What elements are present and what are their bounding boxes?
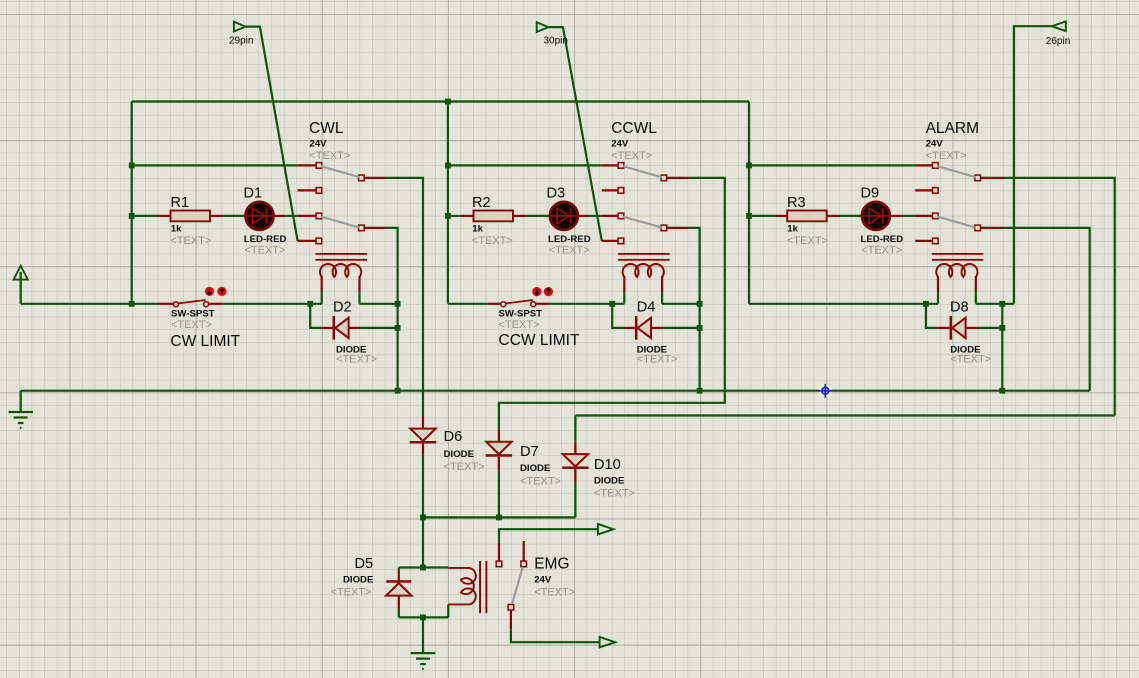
diode D4 right lead: [651, 327, 663, 329]
label CW LIMIT: [170, 333, 240, 350]
label TEXT: [950, 353, 991, 365]
label CCW LIMIT: [499, 332, 580, 349]
wire block2 left rail: [447, 102, 449, 304]
wire EMG common to output: [511, 630, 600, 643]
svg-text:<TEXT>: <TEXT>: [950, 353, 991, 365]
switch EMG pin1 lead: [498, 542, 500, 561]
relay contact stub: [602, 215, 618, 217]
svg-text:<TEXT>: <TEXT>: [926, 150, 967, 162]
relay contact stub: [981, 227, 1004, 229]
label D7: [520, 444, 539, 460]
label SW-SPST: [171, 308, 215, 319]
svg-text:SW-SPST: SW-SPST: [499, 308, 543, 319]
svg-text:LED-RED: LED-RED: [861, 234, 904, 245]
svg-text:<TEXT>: <TEXT>: [171, 319, 212, 331]
wire to relay4 top: [422, 517, 424, 567]
junction: [445, 163, 451, 169]
wire row3 block2 a: [448, 215, 461, 217]
wire relay4 bottom row: [399, 616, 449, 618]
label 1k: [787, 223, 798, 234]
relay contact stub: [298, 189, 316, 191]
pin pad: [661, 175, 667, 181]
junction: [697, 325, 703, 331]
label DIODE: [950, 345, 981, 356]
relay RL1 right lead: [358, 276, 360, 291]
pin pad: [618, 188, 624, 194]
junction: [129, 213, 135, 219]
svg-text:D2: D2: [333, 300, 352, 316]
label TEXT: [549, 245, 590, 257]
svg-text:D4: D4: [637, 300, 656, 316]
svg-text:D7: D7: [520, 444, 539, 460]
label LED-RED: [861, 234, 904, 245]
wire bottom block1 a: [21, 303, 159, 305]
label 24V: [611, 138, 629, 149]
label 26pin: [1046, 36, 1070, 47]
junction: [609, 301, 615, 307]
wire bottom block3 b: [976, 303, 1014, 305]
diode D2 left lead: [321, 327, 332, 329]
wire coil1 left foot: [321, 292, 323, 304]
label TEXT: [444, 461, 485, 473]
relay contact stub: [602, 240, 618, 242]
wire 29pin: [246, 27, 298, 241]
ground: [9, 411, 33, 429]
wire block3 left rail: [748, 102, 750, 304]
relay contact stub: [915, 240, 932, 242]
label LED-RED: [244, 234, 287, 245]
diode D10 top lead: [574, 442, 576, 454]
svg-text:<TEXT>: <TEXT>: [309, 150, 350, 162]
switch blade: [321, 166, 360, 177]
wire 24V top bus: [132, 100, 749, 102]
label D2: [333, 300, 352, 316]
pin pad: [661, 225, 667, 231]
svg-text:<TEXT>: <TEXT>: [637, 353, 678, 365]
diode D5 bottom lead: [398, 596, 400, 609]
input terminal: [14, 266, 28, 304]
relay contact stub: [915, 189, 932, 191]
switch SW2 right lead: [536, 303, 550, 305]
label TEXT: [926, 150, 967, 162]
svg-text:1k: 1k: [171, 223, 182, 234]
svg-text:R3: R3: [787, 195, 806, 211]
label DIODE: [444, 449, 475, 460]
label DIODE: [594, 476, 625, 487]
diode D6: [410, 429, 436, 444]
svg-text:R1: R1: [171, 195, 190, 211]
junction: [420, 565, 426, 571]
switch SW1 left lead: [159, 303, 174, 305]
wire D4 cathode link: [663, 327, 700, 329]
diode D8 left lead: [937, 327, 949, 329]
svg-text:LED-RED: LED-RED: [244, 234, 287, 245]
wire row2 block2: [448, 164, 602, 166]
ground: [411, 652, 435, 670]
wire D5 top stem: [398, 568, 400, 572]
pin pad: [975, 225, 981, 231]
wire row3 block3 b: [840, 215, 862, 217]
label R2: [472, 195, 491, 211]
pin pad: [975, 175, 981, 181]
pin pad: [316, 213, 322, 219]
wire relay3 right to bus A: [1001, 304, 1003, 391]
svg-text:1k: 1k: [787, 223, 798, 234]
LED D1 right lead: [274, 215, 286, 217]
svg-text:1k: 1k: [472, 223, 483, 234]
svg-text:30pin: 30pin: [544, 36, 568, 47]
label TEXT: [472, 235, 513, 247]
diode D7 bottom lead: [498, 457, 500, 471]
relay contact stub: [602, 164, 618, 166]
svg-text:<TEXT>: <TEXT>: [611, 150, 652, 162]
label LED-RED: [548, 234, 591, 245]
svg-text:D6: D6: [444, 429, 463, 445]
label TEXT: [170, 235, 211, 247]
svg-text:24V: 24V: [310, 138, 328, 149]
wire relay4 right foot: [447, 604, 449, 617]
switch SW-SPST CW LIMIT: [173, 300, 208, 307]
resistor R3: [787, 211, 827, 222]
diode D5 top lead: [398, 571, 400, 580]
svg-text:ALARM: ALARM: [926, 120, 979, 137]
svg-text:<TEXT>: <TEXT>: [499, 319, 540, 331]
relay contact stub: [667, 177, 689, 179]
switch blade: [937, 166, 975, 177]
output terminal: [600, 637, 616, 647]
pin terminal: [234, 22, 246, 32]
wire row3 block1 a: [132, 215, 158, 217]
label R3: [787, 195, 806, 211]
svg-text:<TEXT>: <TEXT>: [444, 461, 485, 473]
switch EMG: [496, 561, 526, 610]
svg-text:<TEXT>: <TEXT>: [861, 245, 902, 257]
svg-text:26pin: 26pin: [1046, 36, 1070, 47]
wire diode cathode bus: [423, 516, 575, 518]
wire blade1 block2 to D7: [499, 178, 725, 429]
pin pad: [359, 175, 365, 181]
pin terminal: [537, 22, 549, 32]
svg-text:<TEXT>: <TEXT>: [472, 235, 513, 247]
junction: [445, 99, 451, 105]
wire row3 block1 c: [285, 215, 297, 217]
label 24V: [534, 574, 552, 585]
wire D2 anode drop: [310, 304, 321, 328]
wire ground stem: [20, 391, 22, 412]
pin pad: [359, 225, 365, 231]
wire bottom block2 a: [448, 303, 488, 305]
junction: [746, 163, 752, 169]
junction: [445, 213, 451, 219]
wire coil2 left foot: [623, 292, 625, 304]
svg-text:D1: D1: [244, 186, 263, 202]
label TEXT: [499, 319, 540, 331]
svg-text:<TEXT>: <TEXT>: [520, 476, 561, 488]
svg-text:DIODE: DIODE: [520, 463, 551, 474]
relay RL2 right lead: [661, 276, 663, 291]
label DIODE: [637, 345, 668, 356]
pin pad: [618, 213, 624, 219]
svg-text:LED-RED: LED-RED: [548, 234, 591, 245]
switch EMG common lead: [510, 610, 512, 629]
label CWL: [309, 120, 344, 137]
switch blade: [321, 217, 360, 228]
junction: [129, 301, 135, 307]
resistor R1: [171, 211, 211, 222]
wire coil3 right foot: [975, 292, 977, 304]
relay contact stub: [365, 177, 386, 179]
label TEXT: [245, 245, 286, 257]
switch blade: [937, 217, 975, 228]
pin pad: [316, 238, 322, 244]
wire blade2 block3 to bus A: [1004, 228, 1090, 391]
wire D6 bottom stem: [422, 454, 424, 517]
diode D4: [635, 316, 651, 340]
resistor R2: [474, 211, 514, 222]
junction: [129, 163, 135, 169]
svg-text:24V: 24V: [926, 138, 944, 149]
pin terminal: [1052, 21, 1066, 31]
wire blade2 block1: [386, 228, 398, 391]
resistor R1 left lead: [158, 215, 171, 217]
wire bottom block3 a: [749, 303, 938, 305]
wire row3 block1 b: [223, 215, 245, 217]
wire row2 block1: [132, 164, 298, 166]
wire D2 cathode link: [360, 327, 397, 329]
wire row3 block3 a: [749, 215, 775, 217]
relay contact stub: [298, 164, 316, 166]
relay contact stub: [915, 215, 932, 217]
diode D8: [950, 316, 966, 340]
relay RL3 right lead: [975, 276, 977, 291]
switch SW1 right lead: [209, 303, 223, 305]
label D10: [594, 457, 621, 473]
junction: [395, 301, 401, 307]
label 24V: [310, 138, 328, 149]
LED D9: [862, 202, 890, 230]
label TEXT: [611, 150, 652, 162]
output terminal: [598, 524, 614, 534]
wire D8 cathode link: [977, 327, 1002, 329]
junction: [420, 615, 426, 621]
wire bottom block1 b: [222, 303, 321, 305]
label TEXT: [637, 353, 678, 365]
wire blade1 block3 to bus B: [1004, 178, 1115, 416]
wire blade2 block2: [689, 228, 700, 391]
svg-text:D9: D9: [861, 186, 880, 202]
junction: [395, 325, 401, 331]
label EMG: [534, 556, 569, 573]
LED D1: [246, 202, 274, 230]
label D1: [244, 186, 263, 202]
switch SW-SPST CCW LIMIT: [501, 300, 536, 307]
diode D10: [562, 454, 588, 469]
pin pad: [933, 213, 939, 219]
wire row3 block3 c: [902, 215, 915, 217]
switch blade: [623, 217, 662, 228]
pin pad: [933, 188, 939, 194]
label R1: [171, 195, 190, 211]
wire ground bus A: [21, 390, 1090, 392]
label TEXT: [336, 353, 377, 365]
label ALARM: [926, 120, 979, 137]
svg-text:24V: 24V: [611, 138, 629, 149]
wire D7 bottom stem: [498, 470, 500, 517]
wire 30pin: [548, 27, 601, 241]
svg-text:<TEXT>: <TEXT>: [336, 353, 377, 365]
label CCWL: [611, 120, 657, 137]
svg-text:<TEXT>: <TEXT>: [594, 488, 635, 500]
relay coil RL2: [618, 253, 670, 277]
pin pad: [316, 163, 322, 169]
diode D6 bottom lead: [422, 444, 424, 455]
relay contact stub: [298, 240, 316, 242]
switch actuator dots: [532, 287, 553, 296]
svg-text:CCW LIMIT: CCW LIMIT: [499, 332, 580, 349]
junction: [999, 388, 1005, 394]
label D9: [861, 186, 880, 202]
wire coil2 right foot: [661, 292, 663, 304]
svg-text:DIODE: DIODE: [343, 574, 374, 585]
relay coil RL1: [316, 253, 368, 277]
label D6: [444, 429, 463, 445]
wire relay4 top row: [399, 566, 449, 568]
pin pad: [933, 163, 939, 169]
diode D2 right lead: [349, 327, 361, 329]
resistor R1 right lead: [210, 215, 223, 217]
label TEXT: [594, 488, 635, 500]
wire coil3 left foot: [937, 292, 939, 304]
diode D5: [386, 580, 411, 595]
LED D3: [550, 202, 578, 230]
label 24V: [926, 138, 944, 149]
wire block1 left rail: [131, 102, 133, 304]
switch EMG pin2 stub: [523, 541, 525, 561]
junction: [746, 213, 752, 219]
switch actuator dots: [205, 287, 227, 296]
diode D10 bottom lead: [574, 469, 576, 483]
label DIODE: [336, 345, 367, 356]
wire D4 anode drop: [612, 304, 623, 328]
label TEXT: [331, 586, 372, 598]
wire bottom block2 b: [550, 303, 625, 305]
wire D10 bottom stem: [574, 483, 576, 518]
relay contact stub: [981, 177, 1004, 179]
pin pad: [618, 163, 624, 169]
relay contact stub: [915, 164, 932, 166]
label 1k: [171, 223, 182, 234]
svg-text:<TEXT>: <TEXT>: [534, 586, 575, 598]
label D3: [547, 186, 566, 202]
wire bottom block1 c: [360, 303, 398, 305]
svg-text:CWL: CWL: [309, 120, 344, 137]
label SW-SPST: [499, 308, 543, 319]
wire bottom block2 c: [662, 303, 700, 305]
label TEXT: [787, 235, 828, 247]
svg-text:D10: D10: [594, 457, 621, 473]
svg-text:<TEXT>: <TEXT>: [549, 245, 590, 257]
junction: [697, 301, 703, 307]
wire 26pin: [1014, 26, 1052, 304]
svg-text:<TEXT>: <TEXT>: [331, 586, 372, 598]
switch blade: [623, 166, 662, 177]
pin pad: [316, 188, 322, 194]
svg-text:CW LIMIT: CW LIMIT: [170, 333, 240, 350]
label DIODE: [343, 574, 374, 585]
junction: [697, 388, 703, 394]
pin pad: [618, 238, 624, 244]
wire coil1 right foot: [358, 292, 360, 304]
svg-text:DIODE: DIODE: [594, 476, 625, 487]
svg-text:<TEXT>: <TEXT>: [245, 245, 286, 257]
relay coil RL4: [448, 561, 487, 613]
svg-text:SW-SPST: SW-SPST: [171, 308, 215, 319]
diode D4 left lead: [624, 327, 635, 329]
wire row3 block2 c: [590, 215, 602, 217]
svg-text:D3: D3: [547, 186, 566, 202]
junction: [923, 301, 929, 307]
resistor R2 right lead: [513, 215, 526, 217]
relay contact stub: [667, 227, 689, 229]
relay contact stub: [365, 227, 386, 229]
relay RL2 left lead: [623, 276, 625, 291]
diode D8 right lead: [966, 327, 978, 329]
svg-text:24V: 24V: [534, 574, 552, 585]
pin pad: [933, 238, 939, 244]
relay coil RL3: [932, 253, 984, 277]
svg-text:CCWL: CCWL: [611, 120, 657, 137]
junction: [395, 388, 401, 394]
wire EMG left pin riser: [499, 529, 598, 542]
svg-text:DIODE: DIODE: [444, 449, 475, 460]
svg-text:D8: D8: [950, 300, 969, 316]
diode D7 top lead: [498, 429, 500, 442]
svg-text:D5: D5: [355, 556, 374, 572]
label TEXT: [520, 476, 561, 488]
label D4: [637, 300, 656, 316]
label TEXT: [171, 319, 212, 331]
label D8: [950, 300, 969, 316]
label TEXT: [534, 586, 575, 598]
label 30pin: [544, 36, 568, 47]
diode D2: [333, 316, 349, 340]
wire row3 block2 b: [526, 215, 550, 217]
LED D9 right lead: [890, 215, 902, 217]
svg-text:<TEXT>: <TEXT>: [787, 235, 828, 247]
wire D8 anode drop: [926, 304, 937, 328]
LED D3 right lead: [578, 215, 590, 217]
resistor R3 right lead: [827, 215, 840, 217]
junction: [999, 325, 1005, 331]
wire bus B: [575, 414, 1114, 416]
junction: [999, 301, 1005, 307]
label TEXT: [309, 150, 350, 162]
wire row2 block3: [749, 164, 915, 166]
relay contact stub: [602, 189, 618, 191]
svg-text:EMG: EMG: [534, 556, 569, 573]
label 29pin: [229, 35, 253, 46]
relay RL1 left lead: [321, 276, 323, 291]
origin marker: [818, 384, 832, 398]
resistor R3 left lead: [775, 215, 788, 217]
diode D6 top lead: [422, 416, 424, 429]
svg-text:R2: R2: [472, 195, 491, 211]
switch SW2 left lead: [488, 303, 501, 305]
svg-text:<TEXT>: <TEXT>: [170, 235, 211, 247]
wire D5 bottom stem: [398, 609, 400, 618]
label DIODE: [520, 463, 551, 474]
relay contact stub: [298, 215, 316, 217]
